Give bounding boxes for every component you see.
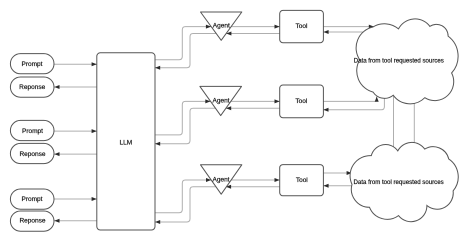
svg-text:LLM: LLM — [119, 139, 132, 146]
wire Prompt1 to LLM — [54, 62, 97, 66]
svg-text:Reponse: Reponse — [19, 218, 45, 225]
wire LLM to Reponse3 — [54, 219, 97, 223]
box Tool 2 — [280, 85, 324, 118]
wire Prompt3 to LLM — [54, 197, 97, 201]
wire LLM to Reponse2 — [54, 152, 97, 156]
svg-text:Data from tool requested sourc: Data from tool requested sources — [354, 57, 444, 64]
svg-text:Agent: Agent — [213, 23, 230, 30]
svg-text:Tool: Tool — [296, 177, 308, 184]
svg-text:Reponse: Reponse — [19, 151, 45, 158]
wire link top cloud to bottom cloud (left) — [393, 95, 395, 152]
wire LLM to Agent1 (forward, passes under Agent1 to Tool1) — [155, 25, 280, 60]
LLM box — [97, 53, 155, 230]
triangle Agent 1 — [201, 12, 242, 40]
wire Tool2 to Agent2 return and Agent2 to LLM — [155, 106, 280, 146]
svg-text:Prompt: Prompt — [22, 61, 43, 68]
pill Reponse 2 — [10, 143, 54, 163]
wire Tool1 to Agent1 return and Agent1 to LLM — [155, 32, 280, 70]
box Tool 1 — [280, 10, 324, 42]
wire Tool1 to top cloud — [323, 25, 374, 29]
pill Reponse 1 — [10, 77, 54, 97]
triangle Agent 2 — [200, 86, 242, 115]
cloud data source top — [356, 19, 458, 104]
pill Prompt 2 — [10, 120, 54, 140]
svg-text:Data from tool requested sourc: Data from tool requested sources — [354, 179, 444, 186]
svg-text:Agent: Agent — [213, 177, 230, 184]
wire link top cloud to bottom cloud (right) — [413, 95, 415, 152]
svg-text:Tool: Tool — [295, 98, 307, 105]
svg-text:Prompt: Prompt — [22, 196, 43, 203]
svg-text:Prompt: Prompt — [22, 128, 43, 135]
wire top cloud to Tool2 — [323, 93, 384, 112]
svg-text:Agent: Agent — [213, 98, 230, 105]
pill Prompt 3 — [10, 189, 54, 209]
wire LLM to Agent2 (forward, passes under Agent2 to Tool2) — [155, 99, 280, 134]
cloud data source bottom — [350, 142, 458, 221]
wire Prompt2 to LLM — [54, 129, 97, 133]
wire LLM to Reponse1 — [54, 85, 97, 89]
box Tool 3 — [280, 165, 324, 196]
wire bottom cloud to Tool3 — [323, 184, 360, 188]
wire LLM to Agent3 (forward, passes under Agent3 to Tool3) — [155, 178, 280, 213]
wire Tool2 to top cloud — [323, 97, 378, 102]
wire Tool3 to bottom cloud — [323, 171, 351, 175]
pill Reponse 3 — [10, 211, 54, 231]
wire top cloud to Tool1 — [323, 30, 378, 34]
pill Prompt 1 — [10, 54, 54, 74]
svg-text:Reponse: Reponse — [19, 84, 45, 91]
triangle Agent 3 — [201, 165, 242, 194]
wire Tool3 to Agent3 return and Agent3 to LLM — [155, 185, 280, 224]
svg-text:Tool: Tool — [296, 23, 308, 30]
